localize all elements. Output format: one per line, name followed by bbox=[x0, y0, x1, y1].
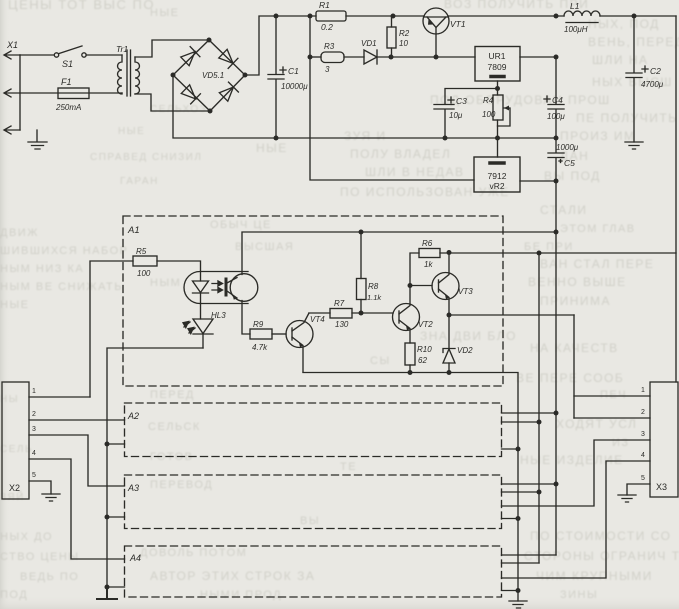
wire to VT3 base bbox=[410, 285, 432, 287]
wire A2 to -12 bus bbox=[502, 412, 557, 414]
svg-text:1: 1 bbox=[32, 388, 36, 395]
junction A2 out1 bbox=[554, 411, 559, 416]
svg-text:10μ: 10μ bbox=[449, 111, 463, 120]
svg-text:7809: 7809 bbox=[488, 62, 507, 72]
svg-text:S1: S1 bbox=[62, 59, 73, 69]
svg-text:ЗИНЫ: ЗИНЫ bbox=[560, 589, 598, 601]
block A4 (dashed) bbox=[125, 546, 502, 597]
svg-text:7912: 7912 bbox=[488, 171, 507, 181]
resistor R6 1k bbox=[419, 239, 440, 269]
svg-text:СЕЛЬСК: СЕЛЬСК bbox=[148, 421, 201, 433]
svg-text:НЫЕ: НЫЕ bbox=[0, 299, 30, 311]
ground (X3) bbox=[618, 495, 636, 502]
junction VD2 bottom bbox=[447, 370, 452, 375]
A1 common rail bbox=[303, 373, 518, 602]
svg-text:1: 1 bbox=[641, 387, 645, 394]
svg-text:ШЛИ В НЕДАВ: ШЛИ В НЕДАВ bbox=[365, 165, 464, 179]
optocoupler U1 bbox=[184, 272, 258, 304]
svg-text:F1: F1 bbox=[61, 77, 72, 87]
resistor R1 bbox=[316, 0, 346, 32]
wire R3 to VD1 bbox=[344, 56, 364, 58]
junction R8 top bbox=[359, 230, 364, 235]
svg-text:2: 2 bbox=[641, 409, 645, 416]
svg-text:АВТОР ЭТИХ СТРОК ЗА: АВТОР ЭТИХ СТРОК ЗА bbox=[150, 569, 315, 583]
X3 pin numbers bbox=[641, 387, 645, 482]
svg-text:НЫХ, ПОД: НЫХ, ПОД bbox=[588, 17, 660, 31]
wire HL3 return bbox=[107, 348, 203, 587]
svg-text:R10: R10 bbox=[417, 345, 432, 354]
block A2 (dashed) bbox=[125, 403, 502, 457]
svg-text:4.7k: 4.7k bbox=[252, 343, 268, 352]
svg-text:HL3: HL3 bbox=[211, 311, 226, 320]
junction A4 gnd bbox=[516, 588, 521, 593]
wire X3.5 to ground bbox=[627, 484, 650, 495]
ground (C2) bbox=[625, 142, 643, 149]
svg-text:VD1: VD1 bbox=[361, 39, 377, 48]
junction C1 bottom bbox=[274, 136, 279, 141]
svg-text:ЧИМ КРУПНЫМИ: ЧИМ КРУПНЫМИ bbox=[536, 569, 653, 583]
junction UR1 out bbox=[554, 55, 559, 60]
junction A3 out1 bbox=[554, 482, 559, 487]
bridge rectifier VD5.1 bbox=[173, 40, 245, 111]
inductor L1 100uH bbox=[564, 1, 600, 34]
junction 0V right bbox=[554, 136, 559, 141]
junction A4 in2 bbox=[105, 585, 110, 590]
wire X1.2 to F1 bbox=[20, 92, 122, 94]
svg-text:100: 100 bbox=[482, 110, 496, 119]
svg-text:A2: A2 bbox=[127, 411, 139, 421]
svg-text:vR2: vR2 bbox=[489, 181, 504, 191]
svg-text:C1: C1 bbox=[288, 66, 299, 76]
svg-text:A1: A1 bbox=[127, 225, 140, 236]
svg-text:130: 130 bbox=[335, 320, 349, 329]
svg-text:R8: R8 bbox=[368, 282, 379, 291]
svg-text:ВЫСШАЯ: ВЫСШАЯ bbox=[235, 241, 294, 253]
wire secondary bottom to bridge bbox=[135, 94, 208, 111]
wire X2.2 to A2 bbox=[29, 419, 125, 421]
wire VR2 gnd stub bbox=[497, 138, 499, 157]
svg-text:62: 62 bbox=[418, 356, 427, 365]
svg-text:R7: R7 bbox=[334, 299, 345, 308]
junction pass-line bbox=[554, 14, 559, 19]
svg-text:СЕЛЬХОЗ: СЕЛЬХОЗ bbox=[150, 104, 207, 115]
svg-text:250mA: 250mA bbox=[55, 103, 81, 112]
fuse F1 250mA bbox=[55, 77, 89, 112]
wire R3 left stub bbox=[310, 56, 321, 58]
resistor R8 1.1k bbox=[357, 232, 383, 313]
connector X1 bbox=[4, 40, 20, 134]
diode VD5.1d bbox=[219, 82, 239, 102]
svg-text:0.2: 0.2 bbox=[321, 22, 333, 32]
node bridge minus bbox=[171, 73, 176, 78]
resistor R5 100 bbox=[133, 247, 157, 278]
connector X3 bbox=[650, 382, 678, 497]
wire X2.3 to A3 bbox=[29, 435, 125, 486]
junction A2 gnd bbox=[516, 447, 521, 452]
svg-text:НЫМ ВЕ СНИЖАТЬ: НЫМ ВЕ СНИЖАТЬ bbox=[0, 281, 123, 293]
junction A3 out2 bbox=[537, 490, 542, 495]
opto base bar bbox=[225, 279, 228, 295]
svg-text:ВЕННО ВЫШЕ: ВЕННО ВЫШЕ bbox=[528, 275, 627, 289]
junction VT3 collector bbox=[447, 250, 452, 255]
svg-text:ПРИНИМА: ПРИНИМА bbox=[540, 294, 611, 308]
wire A4 to +9 bus bbox=[502, 562, 540, 564]
wire UR1 output bbox=[520, 56, 556, 58]
wire X3.1 regulated output bbox=[573, 315, 575, 418]
wire X2.1 riser to R5 bbox=[90, 261, 133, 397]
svg-text:ШЛИ НА: ШЛИ НА bbox=[592, 53, 649, 67]
svg-text:4: 4 bbox=[32, 450, 36, 457]
svg-text:ОБЫЧ ЦЕ: ОБЫЧ ЦЕ bbox=[210, 219, 272, 231]
resistor R9 4.7k bbox=[250, 320, 272, 352]
junction A2 out2 bbox=[537, 420, 542, 425]
wire VT3 emitter output bbox=[449, 314, 574, 316]
wire VT1 to L1 bbox=[448, 15, 564, 17]
transistor VT1 bbox=[423, 8, 466, 57]
junction A3 in2 bbox=[105, 515, 110, 520]
wire A2 to gnd bus bbox=[502, 448, 519, 450]
switch S1 bbox=[54, 46, 86, 69]
svg-text:ЦЕНЫ ТОТ ВЫС ПО: ЦЕНЫ ТОТ ВЫС ПО bbox=[8, 0, 155, 12]
svg-text:R9: R9 bbox=[253, 320, 264, 329]
svg-text:5: 5 bbox=[641, 475, 645, 482]
wire bridge minus to 0V rail bbox=[173, 75, 556, 138]
trimmer R4 100 bbox=[482, 89, 510, 139]
svg-text:C3: C3 bbox=[456, 96, 467, 106]
ground (main 0V) bbox=[509, 601, 527, 608]
svg-text:5: 5 bbox=[32, 472, 36, 479]
zener VD2 bbox=[443, 315, 473, 373]
svg-text:ВЫ: ВЫ bbox=[300, 515, 320, 527]
block A3 (dashed) bbox=[125, 475, 502, 529]
chassis bar bbox=[97, 587, 117, 599]
wire A3 to gnd bus bbox=[502, 518, 519, 520]
diode VD1 bbox=[361, 39, 377, 64]
wire A4 to -12 bus bbox=[502, 554, 557, 556]
svg-text:VD5.1: VD5.1 bbox=[202, 71, 224, 80]
svg-text:НЫМИ ПРОД: НЫМИ ПРОД bbox=[200, 589, 282, 601]
wire X2.1 bbox=[29, 396, 90, 398]
svg-text:1.1k: 1.1k bbox=[367, 293, 382, 302]
svg-text:НЫЕ: НЫЕ bbox=[256, 141, 288, 155]
wire VT4 collector to R7 bbox=[309, 312, 330, 314]
junction +9 branch bbox=[537, 251, 542, 256]
transistor VT4 bbox=[286, 313, 325, 372]
wire VR2 output bbox=[520, 180, 556, 182]
svg-text:A3: A3 bbox=[127, 483, 139, 493]
junction -12 rail A1 bbox=[554, 230, 559, 235]
opto transistor internals bbox=[227, 278, 237, 299]
ground (mains side) bbox=[28, 130, 47, 149]
junction A2 in2 bbox=[105, 442, 110, 447]
light arrows bbox=[212, 281, 223, 286]
junction R4 bottom bbox=[495, 136, 500, 141]
svg-text:100μ: 100μ bbox=[547, 112, 565, 121]
regulator UR1 7809 bbox=[475, 47, 520, 82]
svg-text:БЕ ПРИ: БЕ ПРИ bbox=[524, 241, 574, 253]
wire UR1 gnd pin bbox=[497, 81, 499, 89]
svg-text:100: 100 bbox=[137, 269, 151, 278]
wire UR1 adj to C3 bbox=[445, 89, 498, 105]
svg-text:VD2: VD2 bbox=[457, 346, 473, 355]
svg-text:НЫЕ: НЫЕ bbox=[118, 126, 145, 137]
junction R8 bottom bbox=[359, 311, 364, 316]
LED HL3 bbox=[183, 304, 226, 349]
block A1 (dashed) bbox=[123, 216, 503, 386]
capacitor C5 1000u bbox=[548, 138, 579, 181]
junction C1 top bbox=[274, 14, 279, 19]
resistor R2 10 bbox=[387, 27, 410, 48]
svg-text:R3: R3 bbox=[324, 42, 335, 51]
wire branch to R3 and VR2 input bbox=[310, 16, 474, 180]
svg-text:ДОВОЛЬ ПОТОМ: ДОВОЛЬ ПОТОМ bbox=[140, 547, 247, 559]
wire X1.1 to S1 bbox=[20, 54, 54, 56]
junction C2 top bbox=[632, 14, 637, 19]
svg-text:VT4: VT4 bbox=[310, 315, 325, 324]
connector X2 bbox=[2, 382, 29, 499]
wire R1 to VT1 bbox=[346, 15, 424, 17]
svg-text:НЫМ: НЫМ bbox=[150, 277, 181, 289]
svg-text:C4: C4 bbox=[552, 95, 563, 105]
regulator VR2 7912 bbox=[474, 157, 520, 192]
svg-text:1000μ: 1000μ bbox=[556, 143, 579, 152]
svg-text:ВОЗ ПОЛУЧИТЬ ПРИ: ВОЗ ПОЛУЧИТЬ ПРИ bbox=[444, 0, 589, 11]
svg-text:X2: X2 bbox=[9, 483, 20, 493]
svg-text:1k: 1k bbox=[424, 260, 433, 269]
svg-text:R1: R1 bbox=[319, 0, 330, 10]
wire A4 to gnd bus bbox=[502, 590, 519, 592]
svg-text:3: 3 bbox=[641, 431, 645, 438]
svg-text:ГАРАН: ГАРАН bbox=[120, 176, 159, 187]
minus-12 bus down bbox=[555, 181, 557, 555]
wire R2 stubs bbox=[391, 16, 393, 57]
svg-text:ЗУЯ И: ЗУЯ И bbox=[344, 129, 387, 143]
wire X2.5 to ground bbox=[29, 481, 51, 494]
wire S1 to Tr1 primary bbox=[86, 54, 122, 56]
transistor VT2 bbox=[393, 286, 434, 344]
+9 branch bus down bbox=[538, 253, 540, 563]
capacitor C2 4700u bbox=[626, 16, 664, 142]
diode VD5.1a bbox=[180, 47, 200, 67]
svg-text:3: 3 bbox=[325, 65, 330, 74]
svg-text:ПЕ ПОЛУЧИТЬ ДО: ПЕ ПОЛУЧИТЬ ДО bbox=[576, 111, 679, 125]
junction VT1 base bbox=[434, 55, 439, 60]
junction R3 left bbox=[308, 55, 313, 60]
transistor VT3 bbox=[432, 253, 473, 316]
svg-text:R6: R6 bbox=[422, 239, 433, 248]
svg-text:ПРОИЗ ИМ: ПРОИЗ ИМ bbox=[560, 129, 636, 143]
svg-text:L1: L1 bbox=[570, 1, 580, 11]
wire VD1 to UR1 input bbox=[377, 56, 475, 58]
wire R9 to VT4 base bbox=[272, 333, 286, 335]
wire secondary top to bridge bbox=[135, 40, 207, 57]
svg-text:VT3: VT3 bbox=[458, 287, 473, 296]
svg-text:ЭТОМ ГЛАВ: ЭТОМ ГЛАВ bbox=[560, 223, 636, 235]
junction R2 top bbox=[391, 14, 396, 19]
diode VD5.1b bbox=[218, 49, 238, 69]
svg-text:UR1: UR1 bbox=[488, 51, 505, 61]
svg-text:ПЕЧ: ПЕЧ bbox=[600, 389, 627, 401]
svg-text:ВЕ ПЕРЕ СООБ: ВЕ ПЕРЕ СООБ bbox=[516, 371, 624, 385]
right-edge supply wire to X3 bbox=[675, 16, 677, 382]
wire opto emitter to R9 bbox=[242, 301, 250, 335]
junction VD2 top bbox=[447, 313, 452, 318]
junction R2 bottom bbox=[389, 55, 394, 60]
wire R7 to VT2 base bbox=[352, 312, 393, 314]
svg-text:ПО СТОИМОСТИ СО: ПО СТОИМОСТИ СО bbox=[530, 529, 671, 543]
junction R10 bottom bbox=[408, 370, 413, 375]
wire X2.4 to A4 bbox=[29, 459, 125, 559]
wire L1 to right edge bbox=[600, 15, 676, 17]
svg-text:R4: R4 bbox=[483, 96, 494, 105]
ground (X2) bbox=[42, 494, 60, 501]
svg-text:ДВИЖ: ДВИЖ bbox=[0, 227, 39, 239]
wire R6 right / VT3 collector to +9 rail bbox=[440, 252, 676, 254]
svg-text:ВАН СТАЛ ПЕРЕ: ВАН СТАЛ ПЕРЕ bbox=[540, 257, 654, 271]
junction VR2 out bbox=[554, 179, 559, 184]
wire R6 left to VT2 collector bbox=[410, 253, 419, 286]
svg-text:ПОЛУ ВЛАДЕЛ: ПОЛУ ВЛАДЕЛ bbox=[350, 147, 451, 161]
wire A3 to +9 bus bbox=[502, 491, 540, 493]
svg-text:СТАЛИ: СТАЛИ bbox=[540, 203, 587, 217]
transformer Tr1 bbox=[116, 44, 140, 96]
svg-text:НЫЕ: НЫЕ bbox=[150, 7, 180, 19]
wire bridge plus to top rail bbox=[245, 16, 316, 75]
opto LED bbox=[193, 281, 209, 293]
svg-text:10000μ: 10000μ bbox=[281, 82, 308, 91]
wire A2 to +9 bus bbox=[502, 421, 540, 423]
svg-text:НЫХ ДО: НЫХ ДО bbox=[0, 531, 53, 543]
svg-text:ШИВШИХСЯ НАБОР: ШИВШИХСЯ НАБОР bbox=[0, 245, 129, 257]
svg-text:СЫ: СЫ bbox=[370, 355, 391, 367]
svg-text:4700μ: 4700μ bbox=[641, 80, 664, 89]
svg-text:ПОД: ПОД bbox=[0, 589, 28, 601]
svg-text:ХОДЯТ УСЛ: ХОДЯТ УСЛ bbox=[556, 417, 637, 431]
svg-text:VT1: VT1 bbox=[450, 19, 466, 29]
svg-text:A4: A4 bbox=[129, 553, 141, 563]
svg-text:НЫ: НЫ bbox=[0, 394, 19, 405]
junction R3 branch bbox=[308, 14, 313, 19]
wire opto collector bbox=[242, 232, 556, 275]
node bridge AC top bbox=[207, 38, 212, 43]
svg-text:10: 10 bbox=[399, 39, 408, 48]
svg-text:НЫЕ ИЗДЕЛИЕ: НЫЕ ИЗДЕЛИЕ bbox=[520, 453, 624, 467]
svg-text:R2: R2 bbox=[399, 29, 410, 38]
resistor R10 62 bbox=[405, 343, 432, 373]
diode VD5.1c bbox=[181, 84, 201, 104]
svg-text:C5: C5 bbox=[564, 158, 575, 168]
wire R5 to opto LED bbox=[157, 261, 201, 281]
svg-text:R5: R5 bbox=[136, 247, 147, 256]
node bridge plus bbox=[243, 73, 248, 78]
svg-text:VT2: VT2 bbox=[418, 320, 433, 329]
svg-text:СПРАВЕД СНИЗИЛ: СПРАВЕД СНИЗИЛ bbox=[90, 152, 202, 163]
resistor R3 3 bbox=[321, 42, 344, 74]
svg-text:СТВО ЦЕНЫ: СТВО ЦЕНЫ bbox=[0, 551, 80, 563]
wire X3.3 from A3 bbox=[502, 440, 651, 506]
svg-text:СЕЛЬ: СЕЛЬ bbox=[0, 444, 33, 455]
resistor R7 130 bbox=[330, 299, 352, 329]
wire A3 to -12 bus bbox=[502, 483, 557, 485]
svg-text:X1: X1 bbox=[6, 40, 18, 50]
svg-text:НЫМ НИЗ КА: НЫМ НИЗ КА bbox=[0, 263, 84, 275]
junction A3 gnd bbox=[516, 516, 521, 521]
junction VT3 base bbox=[408, 283, 413, 288]
capacitor C3 10u bbox=[434, 96, 467, 138]
capacitor C1 10000u bbox=[268, 16, 308, 138]
svg-text:4: 4 bbox=[641, 452, 645, 459]
svg-text:3: 3 bbox=[32, 426, 36, 433]
svg-text:100μH: 100μH bbox=[564, 25, 588, 34]
capacitor C4 100u bbox=[544, 57, 565, 138]
svg-text:C2: C2 bbox=[650, 66, 661, 76]
svg-text:X3: X3 bbox=[656, 482, 667, 492]
svg-text:2: 2 bbox=[32, 411, 36, 418]
svg-text:СТОРОНЫ ОГРАНИЧ ТЕ: СТОРОНЫ ОГРАНИЧ ТЕ bbox=[524, 549, 679, 563]
svg-text:ПЕРЕД: ПЕРЕД bbox=[150, 389, 195, 401]
node bridge AC bottom bbox=[208, 109, 213, 114]
svg-text:ИЗ: ИЗ bbox=[612, 437, 630, 449]
svg-text:ВЕДЬ ПО: ВЕДЬ ПО bbox=[20, 571, 79, 583]
wire X3.4 from A4 bbox=[502, 461, 651, 578]
svg-text:ПЕРЕВОД: ПЕРЕВОД bbox=[150, 479, 213, 491]
junction UR1 adj bbox=[495, 86, 500, 91]
svg-text:ТЕ: ТЕ bbox=[340, 461, 357, 473]
X2 pin numbers bbox=[32, 388, 36, 479]
junction C3 bottom bbox=[443, 136, 448, 141]
wire X3.2 bbox=[574, 417, 650, 419]
